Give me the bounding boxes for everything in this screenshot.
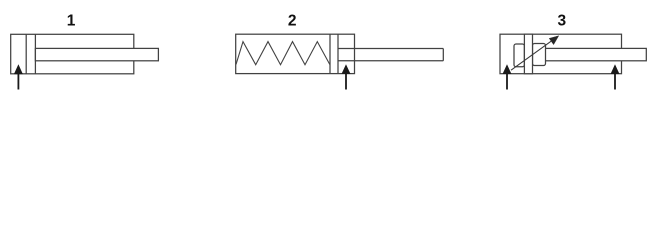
cylinder barrel C2	[236, 34, 355, 73]
piston rod C2	[338, 48, 443, 50]
piston C2	[329, 34, 331, 73]
svg-text:3: 3	[557, 13, 566, 30]
cylinder barrel C3	[500, 34, 622, 73]
svg-text:1: 1	[67, 13, 76, 30]
piston rod C1	[35, 48, 158, 60]
cushion right C3	[533, 44, 546, 66]
cushion left C3	[514, 44, 524, 67]
adjustability arrow C3	[511, 36, 559, 70]
piston C1	[25, 34, 27, 74]
port arrow C3 right	[611, 65, 619, 90]
port arrow C2	[342, 65, 350, 90]
port arrow C3 left	[503, 65, 511, 90]
return spring C2	[236, 42, 330, 65]
svg-text:2: 2	[288, 13, 297, 30]
piston rod C3	[533, 48, 647, 60]
cylinder barrel C1	[11, 34, 134, 74]
piston C3	[524, 34, 532, 73]
port arrow C1	[14, 65, 22, 90]
